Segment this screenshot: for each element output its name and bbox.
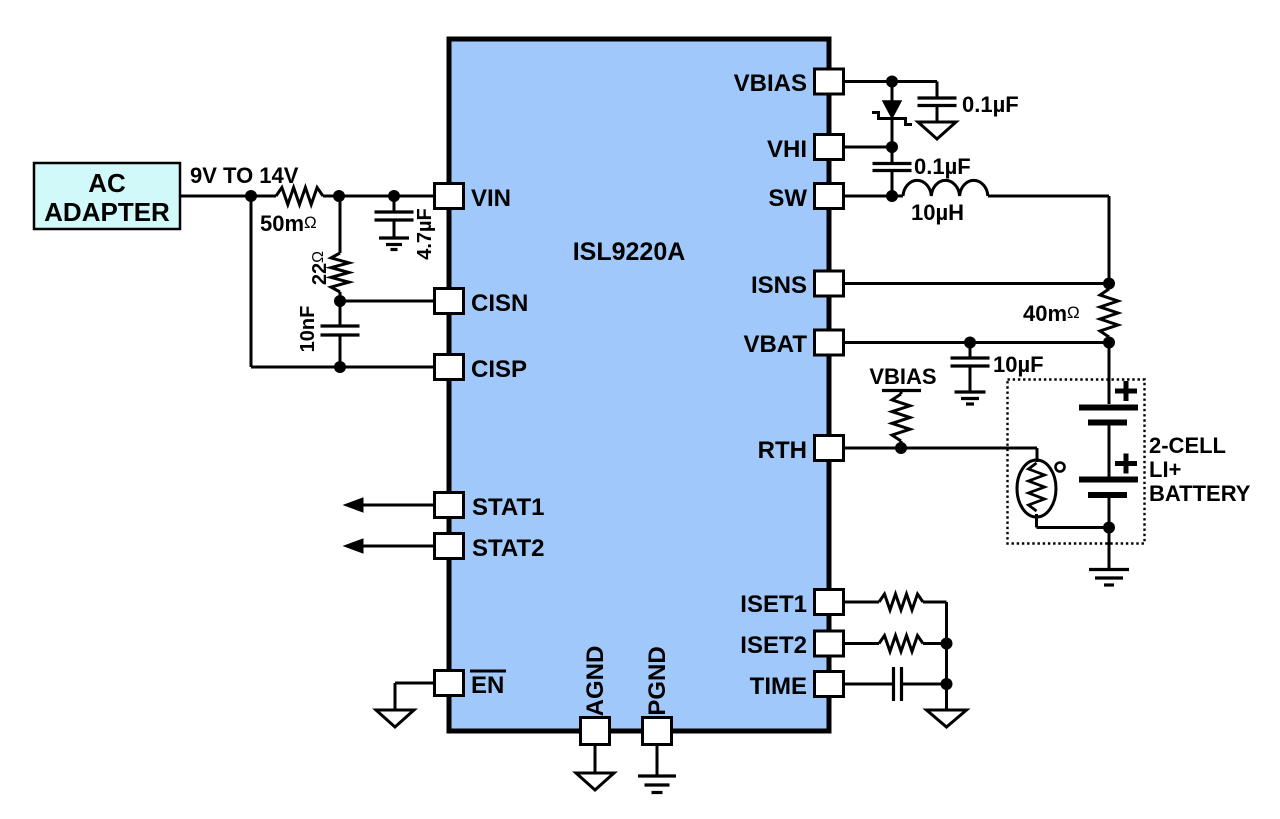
thermistor RT1 xyxy=(1017,460,1065,517)
pin VHI xyxy=(767,135,844,164)
pin CISP xyxy=(435,355,528,384)
wire VBIAS pin to C3 corner xyxy=(843,80,937,83)
pin AGND xyxy=(581,646,610,745)
svg-text:ADAPTER: ADAPTER xyxy=(44,197,170,227)
svg-text:CISN: CISN xyxy=(471,290,528,317)
capacitor C2 10nF xyxy=(321,301,360,367)
svg-text:VBAT: VBAT xyxy=(743,331,807,358)
resistor R1 50m-ohm xyxy=(260,188,323,237)
resistor R4 thermistor bias xyxy=(892,391,910,449)
svg-text:ISNS: ISNS xyxy=(751,272,807,299)
pin VBAT xyxy=(743,330,843,358)
node SW junction xyxy=(886,190,898,202)
wire bottom to CISP pin xyxy=(251,366,435,369)
label 10nF rotated xyxy=(297,306,319,353)
svg-text:10nF: 10nF xyxy=(297,306,319,353)
label 4.7uF rotated xyxy=(414,208,436,260)
node CISP junction xyxy=(334,361,346,373)
pin STAT2 with output arrow xyxy=(344,534,544,563)
resistor R6 on ISET2 xyxy=(879,636,923,652)
wire between cells xyxy=(1108,425,1111,477)
net label VBIAS with rail xyxy=(869,364,936,391)
svg-text:2-CELL: 2-CELL xyxy=(1149,433,1226,458)
svg-text:ISL9220A: ISL9220A xyxy=(573,238,686,266)
wire VBAT node into battery xyxy=(1108,343,1111,405)
capacitor C4 0.1uF VHI-SW xyxy=(873,147,971,196)
battery cell 1 xyxy=(1079,381,1138,423)
svg-text:STAT1: STAT1 xyxy=(472,494,544,521)
svg-text:CISP: CISP xyxy=(471,356,527,383)
svg-text:BATTERY: BATTERY xyxy=(1149,481,1251,506)
svg-text:TIME: TIME xyxy=(750,673,807,700)
wire R6 to ground rail xyxy=(923,642,947,645)
ground triangle below AGND xyxy=(576,773,614,790)
wire R2 to CISN node xyxy=(339,292,342,301)
svg-text:ISET1: ISET1 xyxy=(740,591,807,618)
ground triangle below C3 xyxy=(918,122,956,139)
wire VBAT pin to battery branch xyxy=(843,341,1109,344)
svg-text:ISET2: ISET2 xyxy=(740,632,807,659)
node VBAT-C5 junction xyxy=(964,337,976,349)
pin SW xyxy=(768,184,843,213)
wire ISET1 pin to R5 xyxy=(843,601,879,604)
inductor L1 10uH xyxy=(903,180,988,225)
node CISN junction xyxy=(334,295,346,307)
node VBIAS junction xyxy=(886,76,898,88)
wire thermistor to battery negative xyxy=(1037,514,1110,528)
wire PGND pin down xyxy=(656,744,659,775)
svg-text:AC: AC xyxy=(88,168,126,198)
wire SW pin to inductor xyxy=(843,195,903,198)
svg-text:VBIAS: VBIAS xyxy=(734,70,807,97)
wire adapter output to R1 xyxy=(180,195,276,198)
svg-text:9V TO 14V: 9V TO 14V xyxy=(190,163,299,188)
svg-text:AGND: AGND xyxy=(582,646,609,717)
wire VHI pin to diode node xyxy=(843,146,892,149)
wire inductor to ISNS branch xyxy=(988,196,1109,284)
wire left branch down xyxy=(250,196,253,367)
pin EN active-low xyxy=(435,671,507,700)
svg-text:0.1µF: 0.1µF xyxy=(962,92,1019,117)
wire TIME pin to C6 xyxy=(843,683,894,686)
pin PGND xyxy=(643,646,672,744)
ground earth below PGND xyxy=(638,776,676,793)
wire CISN node to CISN pin xyxy=(340,300,435,303)
wire RTH pin to thermistor xyxy=(843,448,1037,462)
resistor R2 22-ohm xyxy=(331,253,349,292)
svg-text:SW: SW xyxy=(768,185,807,212)
label 2-CELL LI+ BATTERY xyxy=(1149,433,1251,506)
svg-text:10µH: 10µH xyxy=(911,200,964,225)
pin ISET1 xyxy=(740,590,843,619)
svg-text:RTH: RTH xyxy=(758,437,807,464)
wire ISET2 pin to R6 xyxy=(843,642,879,645)
IC U1 ISL9220A body xyxy=(449,39,829,731)
ground earth below C1 xyxy=(379,238,409,250)
svg-text:STAT2: STAT2 xyxy=(472,535,544,562)
pin VBIAS xyxy=(734,69,844,97)
pin TIME xyxy=(750,672,844,701)
capacitor C3 0.1uF at VBIAS xyxy=(918,82,1019,123)
svg-text:VIN: VIN xyxy=(471,185,511,212)
svg-text:0.1µF: 0.1µF xyxy=(914,154,971,179)
resistor R3 40m-ohm sense xyxy=(1023,284,1118,343)
node TIME rail junction xyxy=(941,678,953,690)
wire R1 to VIN pin xyxy=(323,195,435,198)
svg-text:10µF: 10µF xyxy=(993,352,1044,377)
capacitor C6 on TIME xyxy=(894,667,902,701)
wire R5 to ground rail xyxy=(923,602,947,644)
svg-text:4.7µF: 4.7µF xyxy=(414,208,436,260)
node R1-C2 junction xyxy=(333,190,345,202)
capacitor C5 10uF on VBAT xyxy=(951,343,1044,392)
AC adapter source block xyxy=(34,163,180,229)
svg-text:EN: EN xyxy=(471,672,504,699)
node battery negative junction xyxy=(1103,522,1115,534)
node ISET2 rail junction xyxy=(941,638,953,650)
wire rail down to ground xyxy=(945,644,948,711)
svg-text:PGND: PGND xyxy=(644,646,671,715)
pin ISNS xyxy=(751,271,844,299)
ground triangle below rail xyxy=(927,710,967,727)
svg-text:VHI: VHI xyxy=(767,136,807,163)
svg-text:LI+: LI+ xyxy=(1149,457,1181,482)
resistor R5 on ISET1 xyxy=(879,594,923,610)
battery pack dashed enclosure xyxy=(1008,380,1145,544)
node ISNS junction xyxy=(1103,278,1115,290)
ground earth below C5 xyxy=(955,392,986,404)
wire battery negative to ground xyxy=(1108,498,1111,568)
pin RTH xyxy=(758,436,844,465)
label 22-ohm rotated xyxy=(309,251,331,285)
node RTH junction xyxy=(895,442,907,454)
diode D1 schottky VBIAS-VHI xyxy=(872,82,912,148)
node C1 tap junction xyxy=(388,190,400,202)
pin ISET2 xyxy=(740,631,843,659)
label 9V TO 14V xyxy=(190,163,299,188)
pin VIN xyxy=(435,184,512,213)
node VBAT-R3 junction xyxy=(1103,337,1115,349)
wire AGND pin down xyxy=(594,744,597,773)
node input junction xyxy=(245,190,257,202)
wire C6 to ground rail xyxy=(902,683,947,686)
node VHI junction xyxy=(886,141,898,153)
battery cell 2 xyxy=(1079,454,1138,496)
ground triangle at EN xyxy=(376,710,414,727)
wire EN to ground xyxy=(395,683,435,710)
capacitor C1 4.7uF on VIN xyxy=(375,196,414,237)
pin STAT1 with output arrow xyxy=(344,493,544,522)
pin CISN xyxy=(435,289,529,318)
wire junction down to R2 xyxy=(339,196,342,253)
svg-text:VBIAS: VBIAS xyxy=(869,364,936,389)
wire ISNS pin to R3 xyxy=(843,282,1109,285)
ground earth below battery xyxy=(1089,570,1129,586)
